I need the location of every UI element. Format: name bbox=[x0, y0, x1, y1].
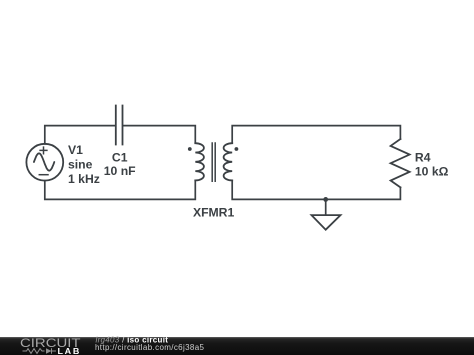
svg-text:1 kHz: 1 kHz bbox=[68, 172, 100, 186]
svg-text:V1: V1 bbox=[68, 143, 83, 157]
CircuitLab logo: CIRCUIT wordmark bbox=[20, 336, 81, 350]
label C1 value bbox=[104, 151, 136, 179]
label V1 value bbox=[68, 143, 100, 186]
svg-text:sine: sine bbox=[68, 158, 93, 172]
wire bottom-left (V1 bottom to XFMR1 primary bottom) bbox=[45, 180, 196, 199]
label R4 value bbox=[415, 150, 449, 178]
wire top-left (V1 top to C1 left plate) bbox=[45, 126, 115, 144]
svg-text:LAB: LAB bbox=[58, 347, 82, 355]
svg-text:R4: R4 bbox=[415, 150, 431, 164]
CircuitLab logo: resistor zigzag bbox=[23, 349, 45, 354]
wire top-middle (C1 right plate to XFMR1 primary top) bbox=[123, 126, 195, 144]
CircuitLab logo: LAB wordmark bbox=[58, 347, 82, 355]
ground bbox=[312, 199, 341, 229]
svg-text:C1: C1 bbox=[112, 151, 128, 165]
transformer XFMR1 bbox=[188, 143, 238, 181]
CircuitLab logo: diode symbol bbox=[46, 348, 56, 354]
capacitor C1 bbox=[116, 106, 123, 145]
svg-text:10 kΩ: 10 kΩ bbox=[415, 165, 449, 179]
resistor R4 bbox=[391, 139, 410, 187]
svg-text:10 nF: 10 nF bbox=[104, 164, 136, 178]
svg-text:http://circuitlab.com/c6j38a5: http://circuitlab.com/c6j38a5 bbox=[95, 343, 205, 352]
voltage source V1 bbox=[26, 144, 63, 181]
svg-text:XFMR1: XFMR1 bbox=[193, 206, 235, 220]
footer bar bbox=[0, 337, 474, 355]
label XFMR1 bbox=[193, 206, 235, 220]
footer title text bbox=[95, 335, 205, 352]
node junction (ground tap on bottom wire) bbox=[323, 197, 328, 202]
wire top-right (XFMR1 secondary top to R4 top) bbox=[232, 126, 400, 144]
wire bottom-right (R4 bottom to XFMR1 secondary bottom) bbox=[232, 180, 400, 199]
